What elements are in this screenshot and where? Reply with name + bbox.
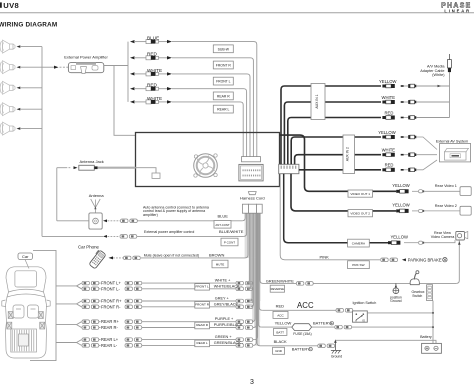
- svg-text:Antenna Jack: Antenna Jack: [80, 159, 104, 164]
- head unit U1 (rear view): [136, 133, 280, 187]
- svg-text:BATTERY: BATTERY: [292, 347, 310, 352]
- svg-text:RED: RED: [276, 304, 285, 309]
- svg-text:VIDEO OUT 1: VIDEO OUT 1: [350, 192, 370, 196]
- harness cord strain relief: [248, 192, 256, 195]
- gearbox switch lever: [410, 271, 419, 285]
- wire GREEN/WHITE bundle exit: [260, 213, 263, 283]
- svg-text:WHITE: WHITE: [147, 68, 162, 73]
- svg-text:Car: Car: [22, 254, 29, 259]
- svg-text:YELLOW: YELLOW: [392, 183, 410, 188]
- label REAR L+: [101, 337, 123, 341]
- svg-text:FRONT R-: FRONT R-: [101, 304, 121, 309]
- connector parking brake: [381, 258, 389, 262]
- svg-text:PURPLE/BLACK -: PURPLE/BLACK -: [214, 323, 246, 327]
- antenna jack plug P1: [79, 165, 136, 170]
- svg-text:BATT: BATT: [276, 330, 284, 334]
- node tag FRONT R: [213, 61, 233, 69]
- svg-text:Car Phone: Car Phone: [78, 244, 100, 249]
- svg-text:Battery: Battery: [420, 335, 432, 339]
- Car label box: [18, 253, 33, 269]
- svg-text:RED: RED: [147, 52, 158, 57]
- head unit fan: [194, 154, 218, 178]
- svg-text:BLUE: BLUE: [147, 36, 159, 41]
- node tag AUX IN 2: [343, 135, 355, 174]
- wire REAR L+ lead: [82, 213, 258, 341]
- wire AUX IN 2 leads to AV system: [416, 137, 437, 170]
- svg-text:FUSE (15A): FUSE (15A): [293, 332, 311, 336]
- node tag FRONT R: [195, 302, 210, 309]
- connector RCA RED y169: [382, 168, 416, 172]
- antenna motor unit M1: [89, 213, 102, 229]
- svg-text:MUTE: MUTE: [216, 262, 225, 266]
- gearbox switch connector strip: [427, 285, 433, 301]
- antenna mast symbol: [91, 199, 101, 213]
- svg-text:BLUE/WHITE: BLUE/WHITE: [219, 229, 244, 234]
- Gearbox Switch label: [412, 290, 425, 298]
- svg-text:REAR R+: REAR R+: [101, 319, 119, 324]
- svg-text:Antenna: Antenna: [89, 193, 105, 198]
- RCA output bracket wire: [127, 42, 129, 102]
- speaker SP1: [0, 40, 42, 53]
- svg-text:amplifier): amplifier): [143, 213, 158, 217]
- wire pair REAR L fan: [56, 340, 82, 346]
- wire BLUE antenna control: [103, 213, 245, 222]
- svg-text:IG: IG: [362, 318, 365, 322]
- wire BLACK bundle exit: [257, 213, 260, 346]
- svg-text:RED: RED: [385, 163, 394, 168]
- svg-text:REAR L: REAR L: [197, 341, 208, 345]
- svg-text:REAR R-: REAR R-: [101, 325, 118, 330]
- svg-text:REVERSE: REVERSE: [271, 287, 285, 291]
- svg-text:ANT-CONT: ANT-CONT: [215, 223, 230, 227]
- wire pair FRONT R fan: [56, 301, 82, 307]
- wire RCA output row REAR L: [130, 100, 243, 157]
- node tag CAMERA: [348, 239, 370, 247]
- car phone handset: [88, 249, 106, 269]
- fuse 15A: [292, 324, 312, 331]
- svg-text:GREY/BLACK -: GREY/BLACK -: [214, 303, 241, 307]
- wire PINK parking brake: [280, 174, 380, 260]
- wire gearbox strip to battery: [432, 301, 434, 344]
- wire ignition to battery junction: [367, 312, 434, 314]
- header rule: [0, 12, 474, 14]
- svg-text:FRONT R: FRONT R: [216, 64, 232, 68]
- wire RED bundle exit: [259, 213, 262, 310]
- label REAR R-: [101, 325, 123, 329]
- label FRONT L+: [101, 281, 123, 285]
- label REAR R+: [101, 320, 123, 324]
- wire VIDEO OUT 2 cable: [291, 174, 396, 211]
- svg-text:External Power Amplifier: External Power Amplifier: [64, 55, 108, 60]
- wire AUX cable RED (AUX IN 2): [299, 169, 381, 171]
- node tag ANT CONT: [214, 221, 231, 229]
- wire camera to reverse line: [456, 240, 460, 283]
- svg-text:WHITE: WHITE: [382, 148, 396, 153]
- node tag PRK SW: [348, 261, 370, 269]
- svg-text:A: A: [355, 318, 357, 322]
- speaker bus wire: [41, 47, 43, 237]
- connector RCA video VIDEO OUT 2: [396, 209, 460, 213]
- svg-text:PINK: PINK: [320, 254, 330, 259]
- svg-text:WHITE: WHITE: [382, 95, 396, 100]
- svg-text:Harness Cord: Harness Cord: [240, 195, 265, 200]
- svg-text:WHITE/BLACK -: WHITE/BLACK -: [214, 285, 243, 289]
- speaker SP2: [0, 61, 42, 74]
- svg-text:YELLOW: YELLOW: [392, 203, 410, 208]
- svg-text:REAR L: REAR L: [217, 108, 229, 112]
- wire FRONT L- lead: [82, 213, 253, 290]
- svg-text:UV8: UV8: [3, 1, 19, 10]
- node tag GND: [273, 347, 285, 354]
- page title partial glyph: [0, 2, 2, 7]
- wire AUX cable RED y117: [288, 118, 381, 165]
- wire YELLOW bundle exit: [258, 213, 261, 327]
- wire REAR L- lead: [82, 213, 256, 347]
- svg-text:P CONT: P CONT: [224, 240, 235, 244]
- connector RCA WHITE y154: [382, 153, 416, 157]
- chassis ground symbol: [331, 339, 342, 358]
- svg-text:VIDEO OUT 2: VIDEO OUT 2: [350, 212, 370, 216]
- wire YELLOW battery: [261, 325, 434, 329]
- head unit RCA connector block: [242, 157, 261, 162]
- svg-text:PRK SW: PRK SW: [352, 263, 364, 267]
- node tag REAR R: [195, 322, 210, 329]
- node tag REAR R: [213, 92, 233, 100]
- node tag FRONT L: [213, 77, 233, 85]
- svg-text:FRONT R+: FRONT R+: [101, 299, 122, 304]
- label FRONT R+: [101, 299, 123, 303]
- node tag P CONT: [221, 238, 238, 246]
- node tag VIDEO OUT 2: [348, 210, 373, 217]
- svg-text:Mute (leave open if not connec: Mute (leave open if not connected): [144, 253, 199, 257]
- svg-text:Ground: Ground: [331, 354, 342, 358]
- connector RCA YELLOW y137: [382, 135, 416, 139]
- wire antenna motor to riser: [57, 220, 89, 222]
- svg-text:WIRING DIAGRAM: WIRING DIAGRAM: [0, 21, 57, 28]
- node tag REAR L: [195, 340, 210, 347]
- car top view: [2, 267, 50, 358]
- node tag VIDEO OUT 1: [348, 190, 373, 197]
- battery B1: [422, 343, 442, 353]
- connector RCA camera: [388, 240, 455, 245]
- svg-text:REAR L+: REAR L+: [101, 337, 119, 342]
- connector RCA WHITE y102: [382, 100, 416, 104]
- node tag BATT: [274, 328, 287, 335]
- wire REAR R+ lead: [82, 213, 255, 323]
- wire FRONT L+ lead: [82, 213, 253, 285]
- svg-text:FRONT R: FRONT R: [195, 302, 209, 306]
- node tag FRONT L: [195, 284, 210, 291]
- wire AUX cable WHITE y102: [284, 102, 381, 164]
- wire RCA output row REAR R: [130, 87, 247, 157]
- wire amplifier feed to head unit: [114, 66, 136, 136]
- wire AUX cable YELLOW y137: [291, 137, 381, 164]
- A/V media adapter plug: [448, 54, 452, 72]
- node tag SUB-W: [213, 45, 233, 53]
- svg-text:YELLOW: YELLOW: [379, 79, 397, 84]
- svg-text:PARKING BRAKE: PARKING BRAKE: [408, 257, 442, 262]
- svg-text:WHITE +: WHITE +: [215, 279, 231, 283]
- head unit right connector J2: [279, 164, 299, 173]
- svg-text:Rear Video 2: Rear Video 2: [435, 204, 457, 208]
- PARKING BRAKE label: [402, 257, 447, 262]
- wire pair FRONT L fan: [56, 283, 82, 289]
- svg-text:BROWN: BROWN: [209, 252, 224, 257]
- wire ground to battery minus: [335, 340, 436, 343]
- wire BLUE/WHITE amp control: [42, 213, 247, 238]
- wire A/V adapter leads: [416, 72, 449, 117]
- label REAR L-: [101, 343, 123, 347]
- External Power Amplifier U-AMP: [68, 63, 103, 74]
- label BATTERY plus: [313, 321, 333, 326]
- svg-text:Rear Video 1: Rear Video 1: [435, 184, 457, 188]
- svg-text:REAR L-: REAR L-: [101, 343, 118, 348]
- svg-text:GREY +: GREY +: [215, 297, 230, 301]
- svg-text:BLUE: BLUE: [218, 213, 229, 218]
- head unit antenna pigtail: [136, 168, 161, 179]
- svg-text:External power amplifier contr: External power amplifier control: [144, 230, 195, 234]
- car bracket wire: [30, 250, 56, 360]
- harness bundle shading: [245, 213, 261, 346]
- svg-text:YELLOW: YELLOW: [391, 235, 409, 240]
- label FRONT R-: [101, 305, 123, 309]
- connector RCA YELLOW y86: [382, 84, 416, 88]
- svg-text:REAR R: REAR R: [217, 94, 230, 98]
- svg-text:FRONT L+: FRONT L+: [101, 281, 121, 286]
- wire AUX cable YELLOW y86: [281, 86, 381, 164]
- svg-text:SUB-W: SUB-W: [218, 47, 230, 51]
- A/V media adapter cable label: [420, 65, 445, 77]
- speaker SP4: [0, 103, 42, 116]
- svg-text:External AV System: External AV System: [436, 139, 468, 143]
- svg-text:RED: RED: [385, 110, 394, 115]
- wire CAMERA cable: [284, 174, 397, 243]
- wire VIDEO OUT 1 cable: [280, 135, 397, 191]
- harness connector housings: [242, 204, 262, 213]
- wire RCA output row SUB-W: [130, 40, 257, 157]
- svg-text:ACC: ACC: [297, 301, 314, 310]
- svg-text:ACC: ACC: [277, 313, 284, 317]
- wire pair REAR R fan: [56, 322, 82, 328]
- svg-text:3: 3: [250, 379, 254, 386]
- svg-text:FRONT L: FRONT L: [196, 284, 209, 288]
- Rear Video 1 monitor unit: [460, 187, 471, 196]
- svg-text:REAR R: REAR R: [196, 323, 208, 327]
- node tag MUTE: [212, 260, 228, 268]
- wire antenna jack to antenna lead: [57, 166, 78, 221]
- wire FRONT R+ lead: [82, 213, 253, 303]
- wire BROWN mute: [109, 213, 249, 260]
- svg-text:(White): (White): [432, 73, 445, 77]
- wire FRONT R- lead: [82, 213, 254, 308]
- label FRONT L-: [101, 287, 123, 291]
- svg-text:GREEN +: GREEN +: [215, 335, 233, 339]
- node tag AUX IN 1: [311, 84, 325, 120]
- svg-text:YELLOW: YELLOW: [378, 130, 396, 135]
- svg-text:BATTERY: BATTERY: [313, 321, 331, 326]
- svg-text:GREEN/WHITE: GREEN/WHITE: [266, 278, 295, 283]
- svg-text:AUX IN 2: AUX IN 2: [346, 147, 350, 161]
- wire amplifier output to RCA bracket: [104, 65, 128, 67]
- connector RCA RED y117: [382, 116, 416, 120]
- svg-text:PURPLE +: PURPLE +: [215, 317, 234, 321]
- node tag ACC: [273, 311, 288, 318]
- rear view camera unit: [456, 231, 468, 240]
- Rear Video 2 monitor unit: [460, 206, 471, 215]
- node tag REVERSE: [270, 285, 284, 292]
- label BATTERY minus: [292, 347, 313, 352]
- Rear View Video Camera label: [431, 231, 455, 239]
- Phase Linear logo: [441, 2, 471, 13]
- wire BLACK ground: [260, 344, 335, 348]
- wire RCA output row FRONT R: [130, 56, 253, 157]
- wire RCA output row FRONT L: [130, 72, 250, 157]
- svg-text:YELLOW: YELLOW: [275, 321, 292, 326]
- svg-text:Ground: Ground: [390, 299, 401, 303]
- wire AUX cable WHITE y154: [295, 155, 381, 165]
- svg-text:Switch: Switch: [412, 294, 422, 298]
- svg-text:WHITE: WHITE: [147, 96, 162, 101]
- speaker SP5: [0, 122, 42, 135]
- svg-text:FRONT L-: FRONT L-: [101, 286, 120, 291]
- svg-text:Video Camera: Video Camera: [431, 235, 455, 239]
- svg-text:GND: GND: [275, 349, 283, 353]
- node tag REAR L: [213, 105, 233, 113]
- svg-text:FRONT L: FRONT L: [216, 80, 231, 84]
- head unit main harness connector: [239, 164, 263, 181]
- svg-text:GREEN/BLACK -: GREEN/BLACK -: [214, 341, 244, 345]
- svg-text:CAMERA: CAMERA: [352, 242, 366, 246]
- wire speaker bus to amplifier: [42, 66, 68, 69]
- wire GREEN/WHITE reverse: [263, 282, 456, 286]
- wire REAR R- lead: [82, 213, 256, 329]
- wire RED accessory: [262, 309, 353, 313]
- svg-text:BLACK: BLACK: [274, 339, 287, 344]
- connector RCA video VIDEO OUT 1: [396, 189, 460, 193]
- External AV System unit: [440, 144, 471, 162]
- svg-text:Ignition Switch: Ignition Switch: [353, 301, 377, 305]
- ignition switch S1: [353, 311, 368, 322]
- svg-text:AUX IN 1: AUX IN 1: [315, 94, 319, 108]
- svg-text:RED: RED: [147, 83, 158, 88]
- speaker SP3: [0, 81, 42, 94]
- auto antenna control note: [143, 205, 209, 217]
- position ground symbol: [390, 283, 402, 303]
